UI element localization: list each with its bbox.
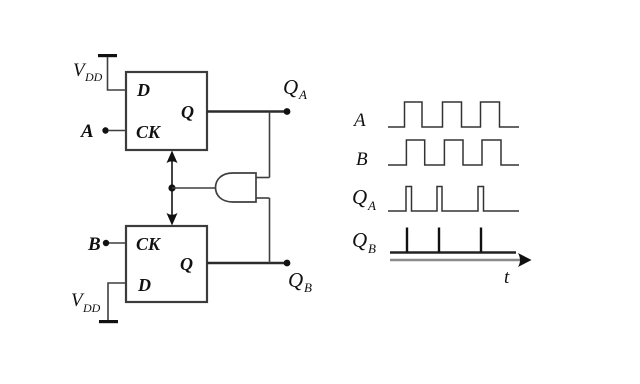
svg-text:CK: CK [136, 234, 162, 254]
power symbol VDD (bottom) [99, 320, 118, 323]
AND gate U3 (mirrored, output on left) [216, 173, 257, 202]
svg-text:DD: DD [84, 70, 103, 84]
power symbol VDD (top) [98, 54, 117, 57]
svg-text:Q: Q [288, 268, 303, 292]
svg-text:B: B [87, 234, 101, 255]
svg-text:B: B [368, 241, 376, 256]
wire AND input stub bottom [256, 197, 270, 199]
svg-text:t: t [504, 267, 510, 288]
node QA dot [284, 108, 291, 115]
waveform QB spike 1 [406, 228, 408, 253]
time axis arrowhead [518, 253, 532, 267]
svg-text:Q: Q [283, 75, 298, 99]
waveform QB spike 2 [438, 228, 440, 253]
wire Q of U1 to node QA [207, 110, 287, 112]
waveform trace B [388, 140, 519, 165]
wire Q of U2 to node QB [207, 262, 287, 264]
wire reset vertical (AND output to both flip-flops, arrows both ends) [171, 156, 173, 219]
wire AND gate output to reset wire [172, 187, 215, 189]
wire B to CK input of U2 [109, 242, 126, 244]
svg-text:Q: Q [181, 102, 194, 122]
waveform trace QB baseline [390, 251, 516, 253]
wire AND input bottom down to QB node [269, 198, 271, 263]
svg-text:DD: DD [82, 301, 101, 315]
node B terminal dot [103, 240, 109, 246]
svg-text:A: A [298, 87, 307, 102]
svg-text:A: A [352, 110, 366, 131]
node A terminal dot [102, 127, 108, 133]
node QB dot [284, 260, 291, 267]
svg-text:CK: CK [136, 122, 162, 142]
svg-text:B: B [356, 149, 368, 170]
svg-text:A: A [367, 198, 376, 213]
junction dot on reset wire [168, 184, 175, 191]
svg-text:Q: Q [352, 228, 367, 252]
svg-text:Q: Q [180, 254, 193, 274]
svg-text:D: D [137, 275, 151, 295]
waveform trace QA [388, 187, 519, 212]
wire AND input stub top [256, 177, 270, 179]
waveform trace A [388, 102, 519, 127]
svg-text:A: A [80, 121, 94, 142]
flip-flop U1 (top D flip-flop body) [126, 72, 207, 150]
svg-text:B: B [304, 280, 312, 295]
waveform QB spike 3 [480, 228, 482, 253]
time axis t [390, 259, 524, 261]
wire VDD to D input of U2 [108, 283, 126, 320]
wire VDD to D input of U1 [108, 57, 127, 90]
arrowhead into U1 [167, 151, 178, 164]
wire A to CK input of U1 [108, 130, 126, 132]
svg-text:Q: Q [352, 185, 367, 209]
flip-flop U2 (bottom D flip-flop body) [126, 226, 207, 302]
wire QA node down to AND input top [269, 112, 271, 178]
arrowhead into U2 [167, 213, 178, 226]
svg-text:D: D [136, 80, 150, 100]
